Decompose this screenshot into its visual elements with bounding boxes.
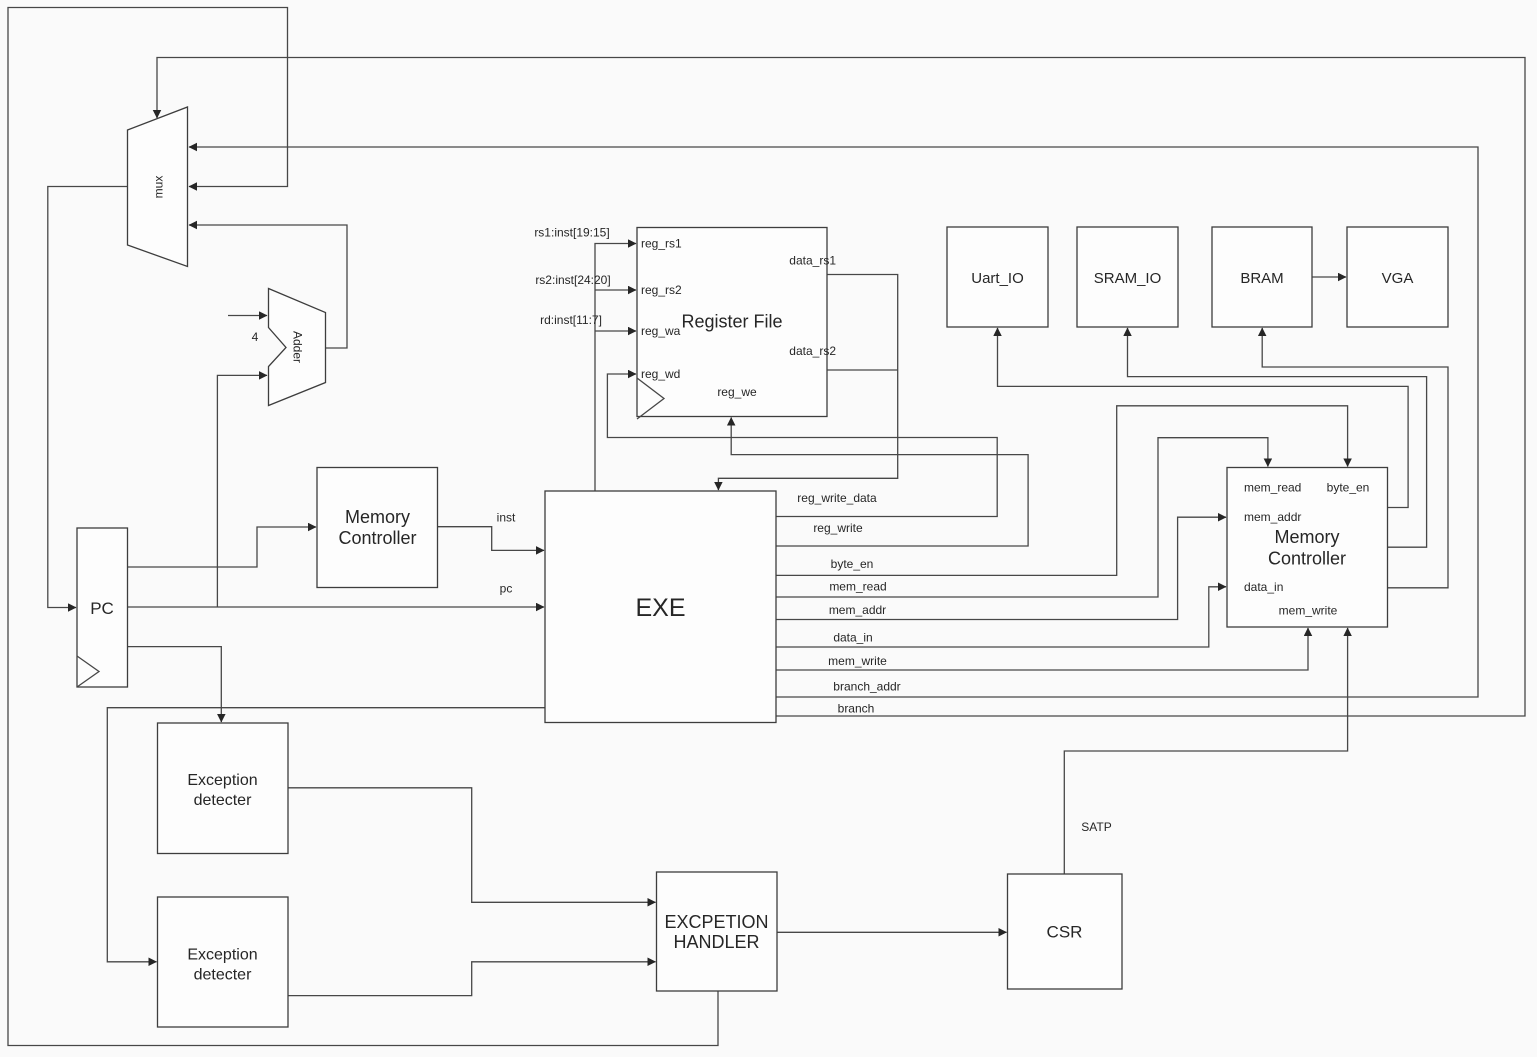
svg-text:Adder: Adder: [291, 331, 305, 363]
svg-text:SATP: SATP: [1081, 820, 1111, 834]
svg-text:reg_wa: reg_wa: [641, 324, 681, 338]
svg-text:Exception: Exception: [187, 772, 257, 789]
svg-text:mem_addr: mem_addr: [1244, 510, 1301, 524]
svg-text:branch_addr: branch_addr: [833, 680, 900, 694]
svg-text:VGA: VGA: [1382, 270, 1414, 287]
svg-text:data_rs1: data_rs1: [789, 254, 836, 268]
svg-text:detecter: detecter: [194, 966, 252, 983]
svg-text:EXCPETION: EXCPETION: [664, 912, 768, 932]
svg-text:Memory: Memory: [1274, 527, 1339, 547]
svg-text:PC: PC: [90, 599, 114, 618]
svg-text:mem_read: mem_read: [1244, 480, 1301, 494]
svg-text:reg_we: reg_we: [717, 385, 757, 399]
svg-text:inst: inst: [497, 511, 516, 525]
svg-text:pc: pc: [500, 582, 513, 596]
svg-text:data_rs2: data_rs2: [789, 344, 836, 358]
svg-text:mux: mux: [152, 176, 166, 199]
svg-text:rs1:inst[19:15]: rs1:inst[19:15]: [534, 226, 609, 240]
svg-text:data_in: data_in: [833, 631, 872, 645]
svg-text:mem_read: mem_read: [829, 580, 886, 594]
svg-text:rd:inst[11:7]: rd:inst[11:7]: [540, 313, 602, 327]
svg-text:HANDLER: HANDLER: [673, 932, 759, 952]
svg-text:mem_write: mem_write: [1279, 604, 1338, 618]
svg-text:Controller: Controller: [338, 528, 416, 548]
svg-text:mem_addr: mem_addr: [829, 603, 886, 617]
svg-text:byte_en: byte_en: [831, 557, 874, 571]
svg-text:mem_write: mem_write: [828, 654, 887, 668]
svg-text:BRAM: BRAM: [1240, 270, 1283, 287]
svg-text:reg_rs1: reg_rs1: [641, 237, 682, 251]
svg-text:rs2:inst[24:20]: rs2:inst[24:20]: [535, 273, 610, 287]
svg-text:branch: branch: [838, 702, 875, 716]
svg-text:reg_write_data: reg_write_data: [797, 491, 877, 505]
svg-text:reg_rs2: reg_rs2: [641, 283, 682, 297]
svg-text:reg_wd: reg_wd: [641, 367, 680, 381]
svg-text:SRAM_IO: SRAM_IO: [1094, 270, 1162, 287]
svg-text:byte_en: byte_en: [1327, 480, 1370, 494]
svg-text:Memory: Memory: [345, 507, 410, 527]
svg-text:CSR: CSR: [1047, 923, 1083, 942]
svg-text:reg_write: reg_write: [813, 521, 863, 535]
svg-text:4: 4: [252, 330, 259, 344]
svg-text:Exception: Exception: [187, 947, 257, 964]
svg-text:EXE: EXE: [635, 594, 685, 622]
svg-text:Register File: Register File: [681, 312, 782, 332]
svg-text:Controller: Controller: [1268, 549, 1346, 569]
svg-text:Uart_IO: Uart_IO: [971, 270, 1024, 287]
svg-text:detecter: detecter: [194, 792, 252, 809]
svg-text:data_in: data_in: [1244, 580, 1283, 594]
